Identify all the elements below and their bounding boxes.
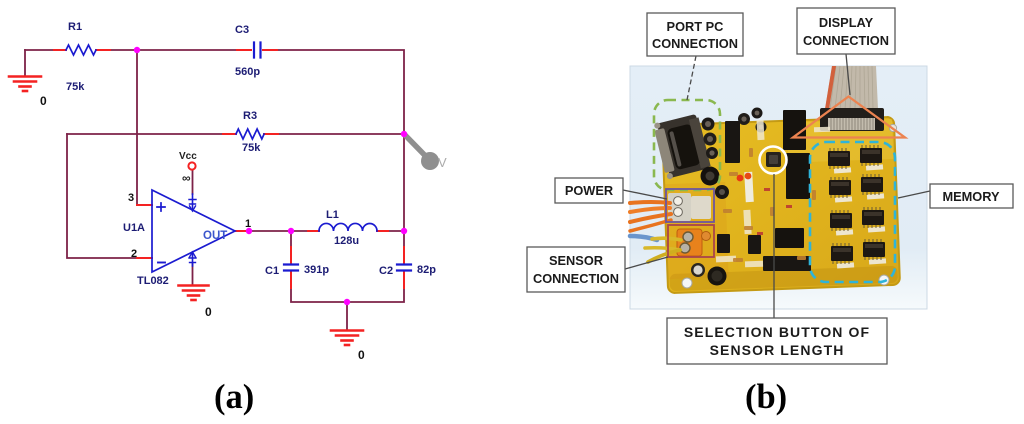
svg-text:(a): (a) (214, 378, 254, 416)
svg-text:560p: 560p (235, 66, 260, 78)
svg-text:75k: 75k (66, 81, 85, 93)
svg-text:MEMORY: MEMORY (942, 189, 1000, 204)
svg-text:75k: 75k (242, 142, 261, 154)
svg-text:3: 3 (128, 192, 134, 204)
svg-text:0: 0 (40, 94, 47, 108)
svg-text:Vcc: Vcc (179, 151, 197, 162)
svg-text:C1: C1 (265, 265, 279, 277)
svg-text:∞: ∞ (182, 171, 191, 185)
svg-text:SENSOR: SENSOR (549, 253, 603, 268)
svg-text:C2: C2 (379, 265, 393, 277)
svg-text:0: 0 (205, 305, 212, 319)
svg-text:2: 2 (131, 248, 137, 260)
svg-text:OUT: OUT (203, 230, 227, 242)
svg-text:PORT PC: PORT PC (667, 19, 724, 34)
svg-text:SENSOR LENGTH: SENSOR LENGTH (710, 342, 845, 358)
svg-text:0: 0 (358, 348, 365, 362)
svg-text:CONNECTION: CONNECTION (533, 271, 619, 286)
svg-text:C3: C3 (235, 24, 249, 36)
svg-text:(b): (b) (745, 378, 787, 416)
svg-text:CONNECTION: CONNECTION (803, 33, 889, 48)
svg-text:POWER: POWER (565, 183, 613, 198)
svg-text:SELECTION BUTTON OF: SELECTION BUTTON OF (684, 324, 870, 340)
svg-text:128u: 128u (334, 235, 359, 247)
svg-text:L1: L1 (326, 209, 339, 221)
svg-text:TL082: TL082 (137, 275, 169, 287)
svg-text:1: 1 (245, 218, 251, 230)
svg-text:DISPLAY: DISPLAY (819, 15, 874, 30)
svg-text:R3: R3 (243, 110, 257, 122)
svg-text:391p: 391p (304, 264, 329, 276)
svg-text:V: V (438, 155, 447, 170)
svg-text:82p: 82p (417, 264, 436, 276)
svg-text:CONNECTION: CONNECTION (652, 36, 738, 51)
svg-text:R1: R1 (68, 21, 82, 33)
svg-text:U1A: U1A (123, 222, 145, 234)
